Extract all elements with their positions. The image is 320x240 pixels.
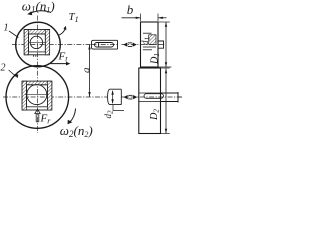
- svg-text:a: a: [80, 67, 92, 73]
- svg-text:ω2(n2): ω2(n2): [60, 123, 93, 138]
- svg-text:1: 1: [4, 23, 9, 34]
- svg-text:b: b: [127, 2, 134, 17]
- svg-text:2: 2: [1, 63, 6, 74]
- svg-text:ω1(n1): ω1(n1): [22, 0, 55, 14]
